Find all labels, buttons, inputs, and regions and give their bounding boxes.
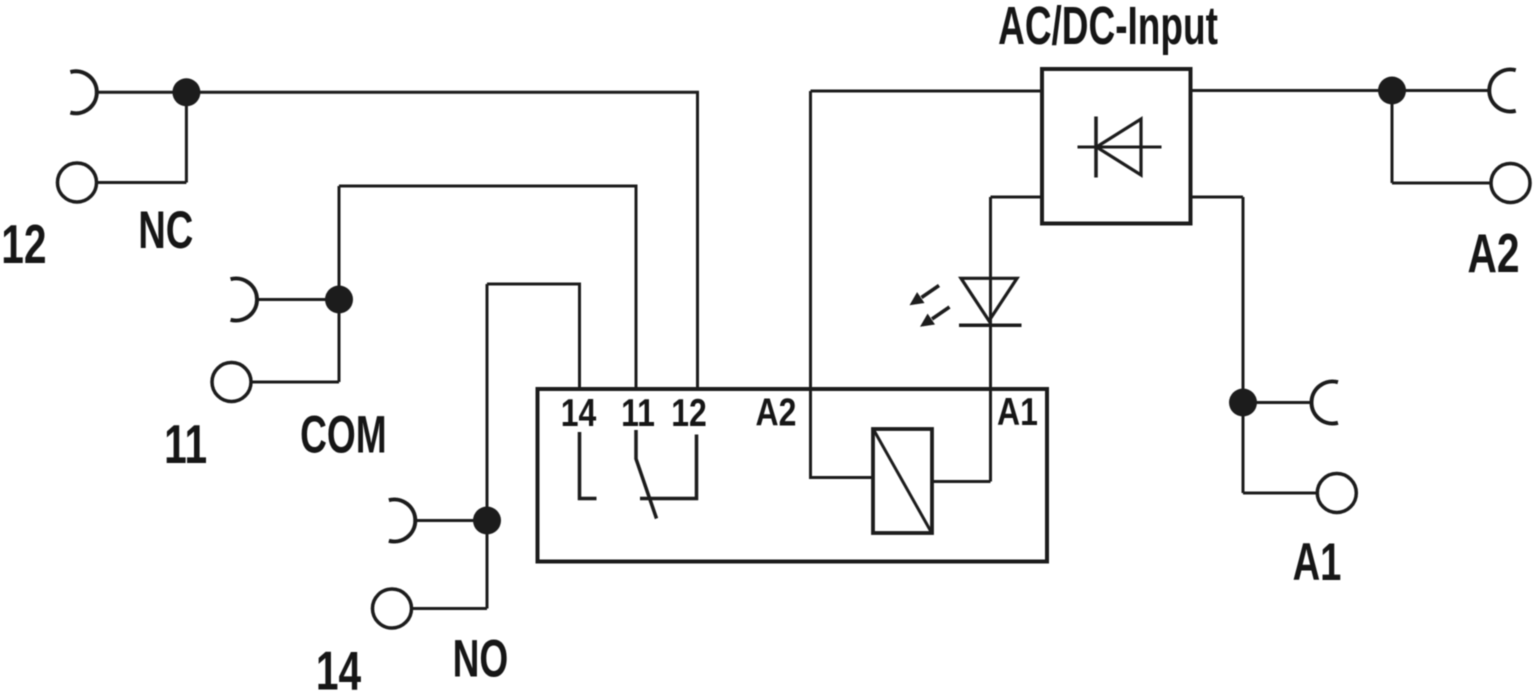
terminal clamp arc A2 [1489, 70, 1515, 112]
wire 14 screw to junction [412, 607, 488, 610]
label pin A1 [997, 390, 1038, 434]
wire A1 screw link [1243, 492, 1317, 495]
node A2 junction [1378, 77, 1406, 105]
LED arrow 1 [910, 286, 940, 306]
node NC junction [172, 78, 200, 106]
terminal screw circle A1 [1317, 474, 1356, 513]
svg-text:A2: A2 [756, 391, 797, 435]
svg-text:11: 11 [164, 414, 207, 475]
contact lever pin 11 [636, 430, 657, 519]
label 14 [316, 641, 361, 696]
node A1 junction [1229, 389, 1257, 417]
label AC/DC-Input [998, 0, 1218, 56]
svg-text:A1: A1 [1293, 532, 1342, 592]
contact stub pin 14 [580, 432, 597, 499]
wire A2 vertical drop [1391, 91, 1394, 184]
wire COM run to relay pin 11 [339, 186, 636, 389]
label NO [453, 629, 509, 688]
wire A1/LED vertical [989, 197, 992, 482]
wire NO run to relay pin 14 [487, 284, 580, 389]
label pin 12 [671, 391, 707, 435]
terminal screw circle 14 [373, 589, 412, 628]
svg-text:AC/DC-Input: AC/DC-Input [998, 0, 1218, 56]
terminal screw circle 11 [212, 363, 251, 402]
label 12 [1, 214, 46, 275]
wire NO vertical [486, 284, 489, 609]
wire NC run to relay pin 12 [97, 92, 698, 389]
svg-text:A1: A1 [997, 390, 1038, 434]
svg-text:12: 12 [671, 391, 707, 435]
terminal clamp arc 14/NO [389, 500, 415, 542]
label A1 [1293, 532, 1342, 592]
contact stub pin 12 [640, 435, 697, 499]
svg-text:14: 14 [561, 391, 597, 435]
label pin 11 [621, 391, 655, 435]
terminal screw circle 12 [58, 163, 97, 202]
terminal screw circle A2 [1491, 164, 1530, 203]
wire input box to A1 column [1191, 196, 1244, 199]
diode lead line [1078, 146, 1162, 149]
coil diagonal [874, 430, 932, 533]
AC/DC input rectifier box U1 [1042, 69, 1191, 224]
node COM junction [325, 286, 353, 314]
label 11 [164, 414, 207, 475]
relay coil K1 [873, 429, 932, 533]
wire COM clamp to junction [257, 298, 339, 301]
diode cathode bar [1094, 117, 1098, 178]
svg-text:14: 14 [316, 641, 361, 696]
diode triangle [1097, 119, 1142, 175]
wire COM vertical [338, 186, 341, 382]
terminal clamp arc 12/NC [70, 71, 96, 113]
wire A2 screw link [1392, 182, 1491, 185]
wire LED column to input box [991, 196, 1043, 199]
label pin A2 [756, 391, 797, 435]
svg-text:NC: NC [138, 200, 193, 260]
svg-text:COM: COM [300, 405, 387, 464]
node NO junction [473, 507, 501, 535]
svg-text:NO: NO [453, 629, 509, 688]
wire NO clamp to junction [415, 519, 487, 522]
relay module box K1 [538, 389, 1048, 562]
LED arrow 2 [920, 307, 950, 327]
terminal clamp arc 11/COM [231, 279, 257, 321]
label NC [138, 200, 193, 260]
wire A1 junction to clamp [1243, 401, 1312, 404]
wire coil to A1 column [932, 480, 991, 483]
wire NC vertical drop [185, 92, 188, 182]
wire A2 into coil [811, 91, 874, 478]
wire A1 vertical [1242, 197, 1245, 493]
svg-text:12: 12 [1, 214, 46, 275]
LED D1 triangle [961, 278, 1017, 321]
label pin 14 [561, 391, 597, 435]
svg-text:A2: A2 [1467, 223, 1519, 284]
label A2 [1467, 223, 1519, 284]
wire 12 screw to junction [97, 181, 187, 184]
LED cathode bar [959, 324, 1022, 328]
wire top right of input box to A2 terminal [1191, 89, 1490, 92]
wire top left of input box (A2 feed) [811, 90, 1043, 93]
svg-text:11: 11 [621, 391, 655, 435]
label COM [300, 405, 387, 464]
terminal clamp arc A1 [1311, 382, 1337, 424]
wire 11 screw to junction [251, 381, 339, 384]
